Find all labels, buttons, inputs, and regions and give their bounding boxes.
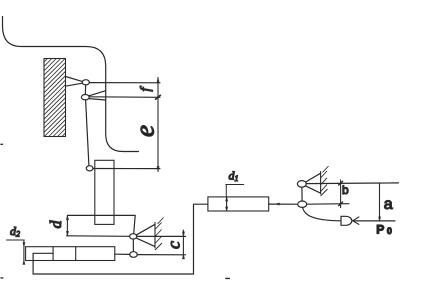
pin O1 (82, 80, 89, 85)
extension line from pin B to c dimension (137, 254, 185, 256)
svg-text:b: b (342, 183, 349, 197)
extension line from pin C to right (top line) (306, 182, 398, 185)
extension line from O1 to f dimension (89, 82, 160, 84)
P0 supply line with arrow (353, 220, 395, 222)
link between pin A and pin B (132, 239, 134, 252)
pin A (130, 234, 137, 239)
link pin A to ground support (tapered) (137, 224, 155, 246)
leader line under d1 (226, 184, 244, 186)
svg-text:e: e (130, 125, 160, 137)
curve pipe from pin D to nozzle (303, 207, 342, 220)
piston rod stub (33, 252, 53, 254)
svg-text:d: d (48, 220, 65, 229)
arrow down at bottom of e dimension (157, 166, 159, 171)
svg-text:d1: d1 (229, 169, 239, 184)
pin D (298, 201, 307, 207)
svg-text:d2: d2 (10, 224, 20, 239)
arrow d top (66, 215, 68, 220)
arrow c top (182, 232, 184, 237)
extension line lower from d dim to pin A (67, 235, 130, 238)
pin O2 (81, 95, 89, 100)
arrow d1 top (226, 197, 228, 201)
ground wall W1 (hatched fixed support top-left) (44, 59, 66, 137)
tick b bottom (339, 202, 343, 206)
tick slash at f/e boundary (156, 95, 161, 99)
dimension line d1 inside cylinder (226, 197, 228, 211)
tick b top (339, 181, 343, 185)
link line from d dim to pin A (68, 215, 136, 233)
svg-text:0: 0 (387, 226, 392, 236)
cylinder CY1 (right, bore d1) (208, 197, 269, 211)
arrow d2 top (23, 243, 25, 247)
arrow at bottom of a dimension (379, 217, 381, 221)
extension line from pin A to c dimension (137, 235, 186, 237)
svg-text:f: f (139, 86, 154, 92)
link pin C to ground support (tapered) (306, 173, 321, 193)
pin C (297, 181, 306, 188)
ground support G2 (mid, hatched) (155, 218, 164, 251)
arrow c bottom (182, 255, 184, 259)
slider block S1 (vertical rectangle) (95, 160, 114, 224)
extension line from O2 to f dimension (89, 96, 160, 99)
piston P2 lines (53, 247, 76, 261)
nozzle N1 (flapper nozzle symbol) (341, 216, 352, 225)
wire cable curve from top-left (3, 17, 139, 152)
dimension line d (66, 215, 68, 235)
link L3 pin O2 to vertical rod (tapered) (89, 91, 106, 100)
ground support G3 (right, hatched) (321, 166, 329, 196)
svg-text:c: c (164, 241, 184, 249)
dimension line b (340, 180, 342, 208)
arrowhead pointing left into nozzle (353, 217, 359, 224)
dimension line d2 (23, 240, 25, 264)
speck marks (scan artifacts) (1, 144, 229, 278)
arrow d2 bottom (23, 261, 25, 265)
leader vertical to cylinder CY1 (225, 185, 227, 197)
pipe from cylinder CY2 to cylinder CY1 (33, 204, 208, 274)
extension line from O3 to e dimension bottom (93, 168, 160, 170)
small arrow on rod line (276, 203, 280, 205)
extension line from pin D to right (mid line) (307, 203, 349, 206)
link L2 between pin O1 and pin O2 (84, 85, 86, 95)
dimension line f/e vertical (157, 78, 159, 172)
dimension line c (182, 230, 184, 256)
pin O3 (slider pin) (86, 166, 93, 171)
arrow d bottom (66, 231, 68, 235)
link rod from O2 down to slider pin (86, 100, 89, 165)
rod line cylinder CY1 to pin D (269, 203, 298, 205)
rod line cylinder CY2 to pin B (115, 253, 130, 255)
dimension line a (379, 183, 381, 221)
pin B (130, 252, 138, 258)
link L1 wall to pin O1 (tapered) (66, 77, 83, 87)
cylinder CY2 (bottom-left, bore d2) (26, 247, 115, 261)
arrow up at top of f dimension (157, 78, 159, 83)
svg-text:P: P (376, 222, 384, 236)
link between pin C and pin D (301, 187, 303, 201)
arrow d1 bottom (226, 207, 228, 211)
svg-text:a: a (384, 196, 393, 213)
leader line under d2 (7, 239, 25, 241)
